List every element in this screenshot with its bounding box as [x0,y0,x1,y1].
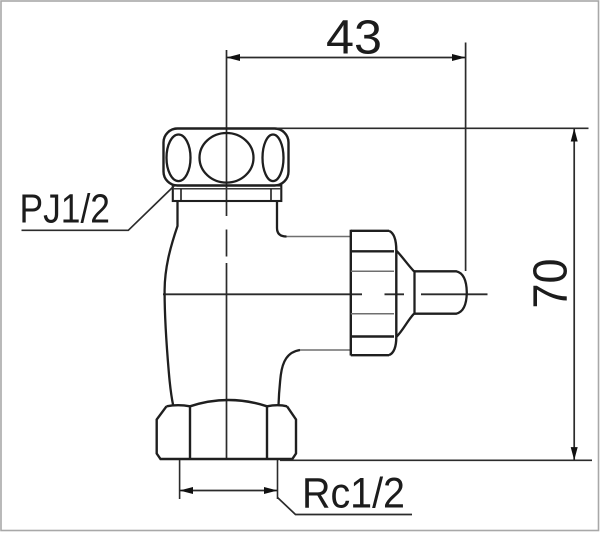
handle knob [164,129,289,186]
inlet thread extension lines [180,460,278,499]
knob knurl center circle [200,133,254,183]
knob knurl right ellipse [263,135,284,182]
valve body right edge upper [277,201,287,237]
label Rc1/2 leader [278,498,413,515]
svg-text:43: 43 [326,12,382,65]
label Rc1/2 dimension line [180,490,278,492]
outlet cone [396,251,414,338]
outlet pipe [414,271,467,313]
svg-text:Rc1/2: Rc1/2 [302,470,405,518]
dimension 70 [276,128,592,460]
union nut [351,230,397,356]
svg-text:70: 70 [525,259,578,309]
label Rc1/2 arrows [180,487,193,494]
dimension 43 arrows [227,54,241,61]
inlet hex nut [157,400,296,459]
valve body right edge lower [279,350,301,406]
bonnet flange [173,186,281,202]
label PJ1/2 leader [22,186,175,230]
knob knurl left ellipse [167,135,191,182]
dimension 70 arrows [571,128,578,141]
horizontal centerline [163,293,488,295]
dimension 43 [227,43,466,272]
outlet boss bottom line [300,349,351,351]
vertical centerline [226,50,228,459]
valve body left edge [165,201,178,406]
svg-text:PJ1/2: PJ1/2 [20,186,111,232]
union nut thin bore lines [351,271,394,314]
outlet boss top line [287,236,351,238]
